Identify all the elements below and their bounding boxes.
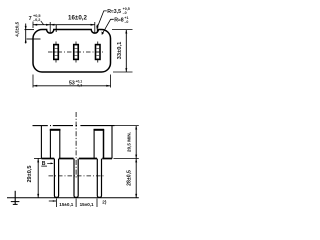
- svg-text:15±0,1: 15±0,1: [80, 202, 94, 207]
- svg-text:16±0,2: 16±0,2: [68, 14, 87, 21]
- svg-text:53: 53: [69, 81, 75, 87]
- svg-text:B: B: [42, 161, 46, 167]
- svg-text:33±0,1: 33±0,1: [117, 41, 123, 59]
- svg-text:R≈8: R≈8: [114, 17, 124, 23]
- svg-text:28±0,5: 28±0,5: [127, 170, 133, 186]
- svg-text:–0: –0: [124, 20, 128, 24]
- svg-text:15±0,1: 15±0,1: [59, 202, 73, 207]
- svg-text:20,5 MIN.: 20,5 MIN.: [126, 132, 131, 152]
- svg-text:–0,3: –0,3: [76, 84, 83, 88]
- svg-text:2): 2): [102, 200, 107, 205]
- svg-text:7: 7: [29, 16, 32, 22]
- svg-text:29±0,5: 29±0,5: [27, 165, 33, 182]
- svg-text:R≈3,5: R≈3,5: [107, 9, 121, 15]
- svg-text:–0,2: –0,2: [33, 18, 40, 22]
- svg-text:–0: –0: [123, 11, 127, 15]
- svg-text:4,5±0,5: 4,5±0,5: [15, 21, 20, 36]
